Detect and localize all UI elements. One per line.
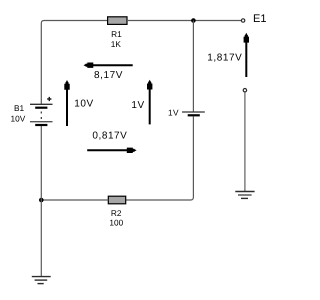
junction dot at node E1 branch — [191, 18, 196, 23]
ground (left) — [32, 277, 51, 284]
battery B1: top short thick plate — [35, 107, 47, 109]
ground (right) — [235, 192, 254, 199]
resistor R1 — [108, 17, 127, 25]
wire: R2 left to left rail junction — [41, 199, 108, 201]
svg-text:B1: B1 — [14, 103, 25, 113]
node label E1 — [253, 13, 266, 25]
battery B1: plus sign — [47, 97, 51, 101]
arrow 1,817V (pointing up) — [244, 33, 249, 77]
wire: junction down to 1V source — [192, 21, 194, 112]
svg-text:R1: R1 — [111, 29, 122, 39]
svg-text:100: 100 — [109, 218, 123, 228]
wire: R1 right to E1 terminal — [127, 20, 241, 22]
voltage source V1 1V: short thick plate — [188, 114, 200, 116]
arrow 0,817V (pointing right) — [87, 148, 136, 153]
label 1V (source) — [168, 108, 179, 118]
terminal circle E1 — [241, 19, 244, 22]
svg-text:1V: 1V — [131, 100, 144, 111]
svg-text:10V: 10V — [74, 99, 93, 110]
svg-text:1V: 1V — [168, 108, 179, 118]
svg-text:1,817V: 1,817V — [207, 52, 242, 63]
value 1K — [111, 39, 122, 49]
svg-text:0,817V: 0,817V — [92, 131, 127, 142]
battery B1: bottom short thick plate — [35, 124, 47, 126]
wire: battery bottom down to ground — [40, 126, 42, 276]
value label 0,817V — [92, 131, 127, 142]
arrow 1V (pointing up) — [147, 80, 152, 125]
value 10V (battery) — [11, 114, 26, 124]
label B1 — [14, 103, 25, 113]
wire: 1V source down, corner, left to R2 — [126, 116, 194, 200]
label R1 — [111, 29, 122, 39]
arrow 8,17V (pointing left) — [84, 62, 133, 67]
value label 1,817V — [207, 52, 242, 63]
wire: probe terminal down to ground — [244, 92, 246, 191]
value label 10V — [74, 99, 93, 110]
value 100 — [109, 218, 123, 228]
battery B1: dotted middle — [40, 112, 42, 122]
wire: top-left from battery top up and right to R1 — [41, 21, 107, 105]
junction dot at left rail — [39, 198, 44, 203]
svg-text:8,17V: 8,17V — [94, 70, 123, 81]
resistor R2 — [108, 196, 125, 204]
terminal circle (probe) — [243, 89, 246, 92]
svg-text:E1: E1 — [253, 13, 266, 25]
battery B1: bottom long plate — [30, 121, 53, 123]
svg-text:R2: R2 — [111, 208, 122, 218]
battery B1: top long plate — [30, 103, 53, 105]
value label 8,17V — [94, 70, 123, 81]
label R2 — [111, 208, 122, 218]
svg-text:1K: 1K — [111, 39, 122, 49]
value label 1V — [131, 100, 144, 111]
svg-text:10V: 10V — [11, 114, 26, 124]
voltage source V1 1V: long plate — [182, 111, 205, 113]
arrow 10V (pointing up) — [64, 80, 69, 126]
